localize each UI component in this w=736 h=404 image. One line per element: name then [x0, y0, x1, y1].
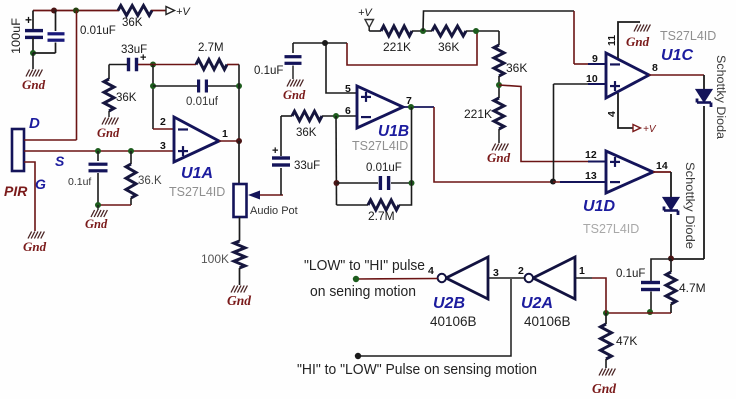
- svg-text:36K: 36K: [122, 17, 143, 29]
- svg-text:11: 11: [606, 35, 618, 46]
- svg-text:47K: 47K: [616, 334, 637, 348]
- svg-text:TS27L4ID: TS27L4ID: [583, 222, 639, 236]
- svg-text:36.K: 36.K: [138, 175, 162, 187]
- resistor R 2.7M (U1B feedback): [337, 204, 369, 206]
- svg-text:40106B: 40106B: [430, 314, 477, 329]
- capacitor C 100uF electrolytic: [32, 11, 34, 30]
- svg-text:0.1uF: 0.1uF: [254, 65, 283, 77]
- node junction 100uF/0.01uF ground: [30, 50, 36, 56]
- svg-text:Gnd: Gnd: [592, 381, 616, 396]
- ground (100K): [239, 268, 241, 285]
- wire U2A out to U2B in: [488, 277, 525, 279]
- wire pin5 to divider node B: [347, 32, 477, 65]
- svg-text:8: 8: [652, 62, 658, 74]
- svg-text:Gnd: Gnd: [23, 239, 47, 254]
- wire output to pot: [238, 141, 240, 184]
- wire U1A pin2: [153, 128, 174, 130]
- wire U1C pin9: [574, 63, 590, 65]
- svg-text:TS27L4ID: TS27L4ID: [169, 185, 225, 199]
- svg-text:+: +: [25, 13, 32, 27]
- svg-text:Gnd: Gnd: [227, 293, 251, 308]
- svg-text:1: 1: [579, 265, 585, 277]
- wire U1D pin14 output: [653, 171, 671, 173]
- svg-text:Audio Pot: Audio Pot: [250, 205, 298, 217]
- svg-text:"HI" to "LOW" Pulse on sensing: "HI" to "LOW" Pulse on sensing motion: [297, 362, 537, 378]
- svg-text:U1D: U1D: [583, 198, 615, 215]
- svg-text:+: +: [272, 145, 278, 157]
- node U1B pin6: [333, 113, 339, 119]
- svg-text:13: 13: [585, 170, 597, 182]
- Schottky Diode (U1D output): [670, 172, 672, 197]
- svg-text:0.1uf: 0.1uf: [68, 176, 91, 188]
- svg-text:0.01uF: 0.01uF: [80, 25, 116, 37]
- wire PIR G pin to ground: [24, 162, 35, 231]
- ground (divider): [498, 129, 500, 143]
- svg-text:D: D: [29, 115, 40, 132]
- wire U1B pin7 output: [403, 106, 434, 108]
- wire tap to HI->LOW output: [358, 279, 511, 356]
- resistor R 2.7M (U1A feedback): [153, 64, 196, 66]
- svg-text:5: 5: [345, 83, 351, 95]
- svg-text:S: S: [55, 153, 65, 169]
- wire to U1D pin13: [553, 181, 590, 183]
- node A divider: [420, 28, 426, 34]
- wire U1C pin10: [588, 83, 606, 85]
- pin11 stem to ground: [618, 22, 640, 58]
- inverter U2A: [533, 257, 575, 299]
- wire U1C pin8 output: [649, 74, 704, 76]
- svg-text:0.01uf: 0.01uf: [186, 96, 219, 108]
- node U1A output: [236, 138, 242, 144]
- svg-text:+V: +V: [358, 7, 373, 19]
- resistor R 36K (top-left to +V): [118, 6, 152, 16]
- svg-text:221K: 221K: [464, 107, 492, 121]
- wire pin5 net: [293, 42, 347, 44]
- ground (47K): [605, 359, 607, 368]
- wire U2B out to LOW->HI node: [356, 278, 438, 281]
- wire diode cathodes join: [671, 258, 704, 260]
- svg-text:36K: 36K: [438, 40, 459, 54]
- svg-text:PIR: PIR: [4, 183, 28, 199]
- svg-text:Gnd: Gnd: [487, 150, 511, 165]
- wire feedback net to U1A output: [238, 65, 240, 141]
- svg-text:Gnd: Gnd: [85, 217, 108, 231]
- capacitor C 0.01uF (U1B feedback): [337, 182, 379, 184]
- svg-text:36K: 36K: [296, 127, 317, 139]
- svg-text:Schottky Dioda: Schottky Dioda: [714, 55, 726, 140]
- svg-text:TS27L4ID: TS27L4ID: [352, 139, 408, 153]
- svg-text:40106B: 40106B: [524, 314, 571, 329]
- svg-text:U1A: U1A: [181, 165, 213, 182]
- svg-text:0.1uF: 0.1uF: [616, 268, 645, 280]
- svg-text:9: 9: [592, 53, 598, 65]
- svg-text:12: 12: [585, 149, 597, 161]
- svg-text:2.7M: 2.7M: [368, 209, 395, 223]
- svg-text:14: 14: [656, 160, 668, 172]
- node C divider: [498, 76, 500, 98]
- ground (0.1uF bypass): [292, 66, 294, 80]
- wire node A to U1C pin9 rail: [423, 11, 574, 31]
- svg-text:+: +: [140, 52, 146, 64]
- wire top-left +V rail: [33, 10, 119, 12]
- resistor R 36K (right divider): [498, 31, 500, 45]
- svg-text:Gnd: Gnd: [22, 77, 46, 92]
- wire 33uF left to 36K: [109, 64, 127, 66]
- wire pot bottom to 100K: [239, 217, 241, 241]
- ground (PIR G): [28, 232, 32, 239]
- svg-text:0.01uF: 0.01uF: [366, 162, 402, 174]
- svg-text:Gnd: Gnd: [97, 126, 120, 140]
- svg-text:G: G: [35, 176, 46, 192]
- wire to U1C pin10: [553, 84, 555, 182]
- op-amp U1B: [357, 86, 403, 128]
- ground (U1C pin11): [634, 25, 638, 32]
- svg-text:6: 6: [345, 105, 351, 117]
- wire PIR D pin: [24, 139, 77, 141]
- svg-text:221K: 221K: [383, 40, 411, 54]
- op-amp U1A: [174, 117, 219, 162]
- wire 36K bottom to cap bottom: [98, 204, 131, 206]
- capacitor C 0.1uF (reference bypass): [292, 43, 294, 53]
- svg-text:"LOW" to "HI" pulse: "LOW" to "HI" pulse: [304, 258, 425, 274]
- ground (100uF): [32, 53, 34, 69]
- svg-text:4: 4: [606, 111, 618, 117]
- capacitor C 0.01uf (U1A feedback): [150, 83, 156, 89]
- op-amp U1C: [606, 53, 649, 98]
- svg-text:1: 1: [222, 128, 228, 140]
- wire output node: [606, 312, 671, 314]
- wire pin6 down: [335, 116, 338, 205]
- wire U2A input pin1: [575, 277, 592, 279]
- pot wiper arrow: [259, 194, 283, 196]
- svg-text:3: 3: [493, 267, 499, 279]
- PIR sensor body: [12, 129, 24, 171]
- svg-text:2.7M: 2.7M: [198, 42, 224, 54]
- svg-text:100uF: 100uF: [11, 18, 23, 54]
- svg-text:3: 3: [160, 140, 166, 152]
- node U1A inverting input net: [150, 62, 156, 68]
- resistor R 47K: [605, 313, 607, 324]
- svg-text:on sening motion: on sening motion: [310, 284, 416, 300]
- ground (36K U1A): [108, 111, 110, 117]
- resistor R 36K (U1B input): [281, 115, 292, 117]
- resistor R 36K (PIR source load): [128, 148, 134, 154]
- svg-text:100K: 100K: [201, 252, 229, 266]
- capacitor C 0.1uf (PIR source filter): [95, 148, 101, 154]
- svg-text:+V: +V: [643, 124, 657, 135]
- resistor R 36K (U1A gain set): [104, 79, 114, 111]
- capacitor C 33uF (U1A input coupling): [127, 58, 130, 72]
- resistor R 100K: [234, 241, 245, 268]
- svg-text:2: 2: [518, 265, 524, 277]
- +V terminal top-left: [166, 7, 175, 15]
- svg-text:+V: +V: [176, 6, 191, 18]
- ground (S filter): [97, 205, 99, 210]
- svg-text:U1C: U1C: [661, 47, 693, 64]
- svg-text:TS27L4ID: TS27L4ID: [660, 29, 716, 43]
- wire U1A pin1 output: [219, 140, 239, 142]
- potentiometer Audio Pot: [234, 184, 247, 217]
- wire U1B out down/right to comparators: [434, 107, 553, 182]
- node B divider: [473, 28, 479, 34]
- svg-text:2: 2: [160, 116, 166, 128]
- svg-text:Gnd: Gnd: [626, 34, 650, 49]
- pin4 stem to +V: [618, 93, 633, 128]
- wire +V rail to PIR drain: [73, 8, 79, 14]
- svg-text:4: 4: [428, 265, 434, 277]
- +V terminal (pin4): [633, 125, 641, 132]
- capacitor C 33uF (pot coupling): [280, 168, 282, 195]
- svg-text:10: 10: [586, 73, 598, 85]
- svg-text:36K: 36K: [506, 61, 527, 75]
- resistor R 36K (divider): [432, 26, 466, 36]
- resistor R 221K (divider top): [381, 26, 412, 36]
- svg-text:36K: 36K: [116, 92, 137, 104]
- svg-text:Schottky Diode: Schottky Diode: [683, 162, 695, 249]
- capacitor C 0.01uF (supply bypass): [51, 8, 57, 14]
- wire node C to U1D pin12: [499, 85, 590, 162]
- op-amp U1D: [606, 151, 653, 193]
- svg-text:U1B: U1B: [378, 123, 409, 140]
- capacitor C 0.1uF (output hold): [651, 259, 671, 281]
- svg-text:U2A: U2A: [521, 295, 553, 312]
- svg-text:4.7M: 4.7M: [679, 281, 706, 295]
- svg-text:U2B: U2B: [433, 295, 465, 312]
- Schottky Diode (U1C output): [703, 75, 705, 89]
- resistor R 221K (right divider bottom): [494, 98, 504, 129]
- inverter U2B: [446, 257, 488, 299]
- wire PIR S pin to U1A pin3: [24, 150, 174, 152]
- svg-text:33uF: 33uF: [294, 160, 320, 172]
- svg-text:Gnd: Gnd: [283, 88, 306, 102]
- resistor R 4.7M: [670, 259, 672, 272]
